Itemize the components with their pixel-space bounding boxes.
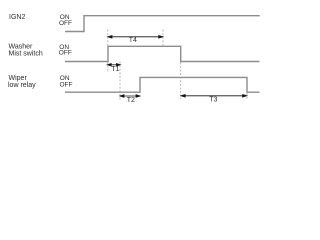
svg-text:low relay: low relay bbox=[8, 82, 36, 89]
svg-text:T3: T3 bbox=[209, 97, 217, 104]
svg-text:OFF: OFF bbox=[60, 81, 73, 88]
svg-text:Wiper: Wiper bbox=[9, 75, 28, 82]
svg-text:T2: T2 bbox=[127, 97, 135, 104]
svg-text:OFF: OFF bbox=[59, 49, 72, 56]
svg-text:OFF: OFF bbox=[59, 20, 72, 27]
svg-text:T4: T4 bbox=[129, 37, 137, 44]
svg-text:Mist switch: Mist switch bbox=[9, 51, 43, 58]
svg-text:T1: T1 bbox=[111, 66, 119, 73]
svg-text:Washer: Washer bbox=[9, 44, 34, 51]
svg-text:IGN2: IGN2 bbox=[9, 14, 25, 21]
